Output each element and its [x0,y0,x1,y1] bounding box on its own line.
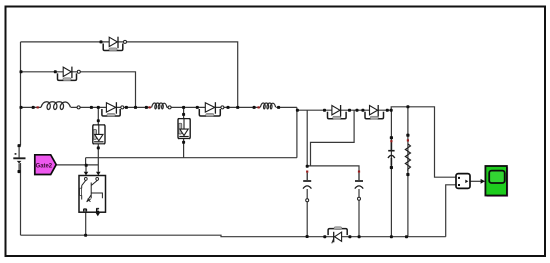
svg-text:Gate2: Gate2 [36,162,53,169]
